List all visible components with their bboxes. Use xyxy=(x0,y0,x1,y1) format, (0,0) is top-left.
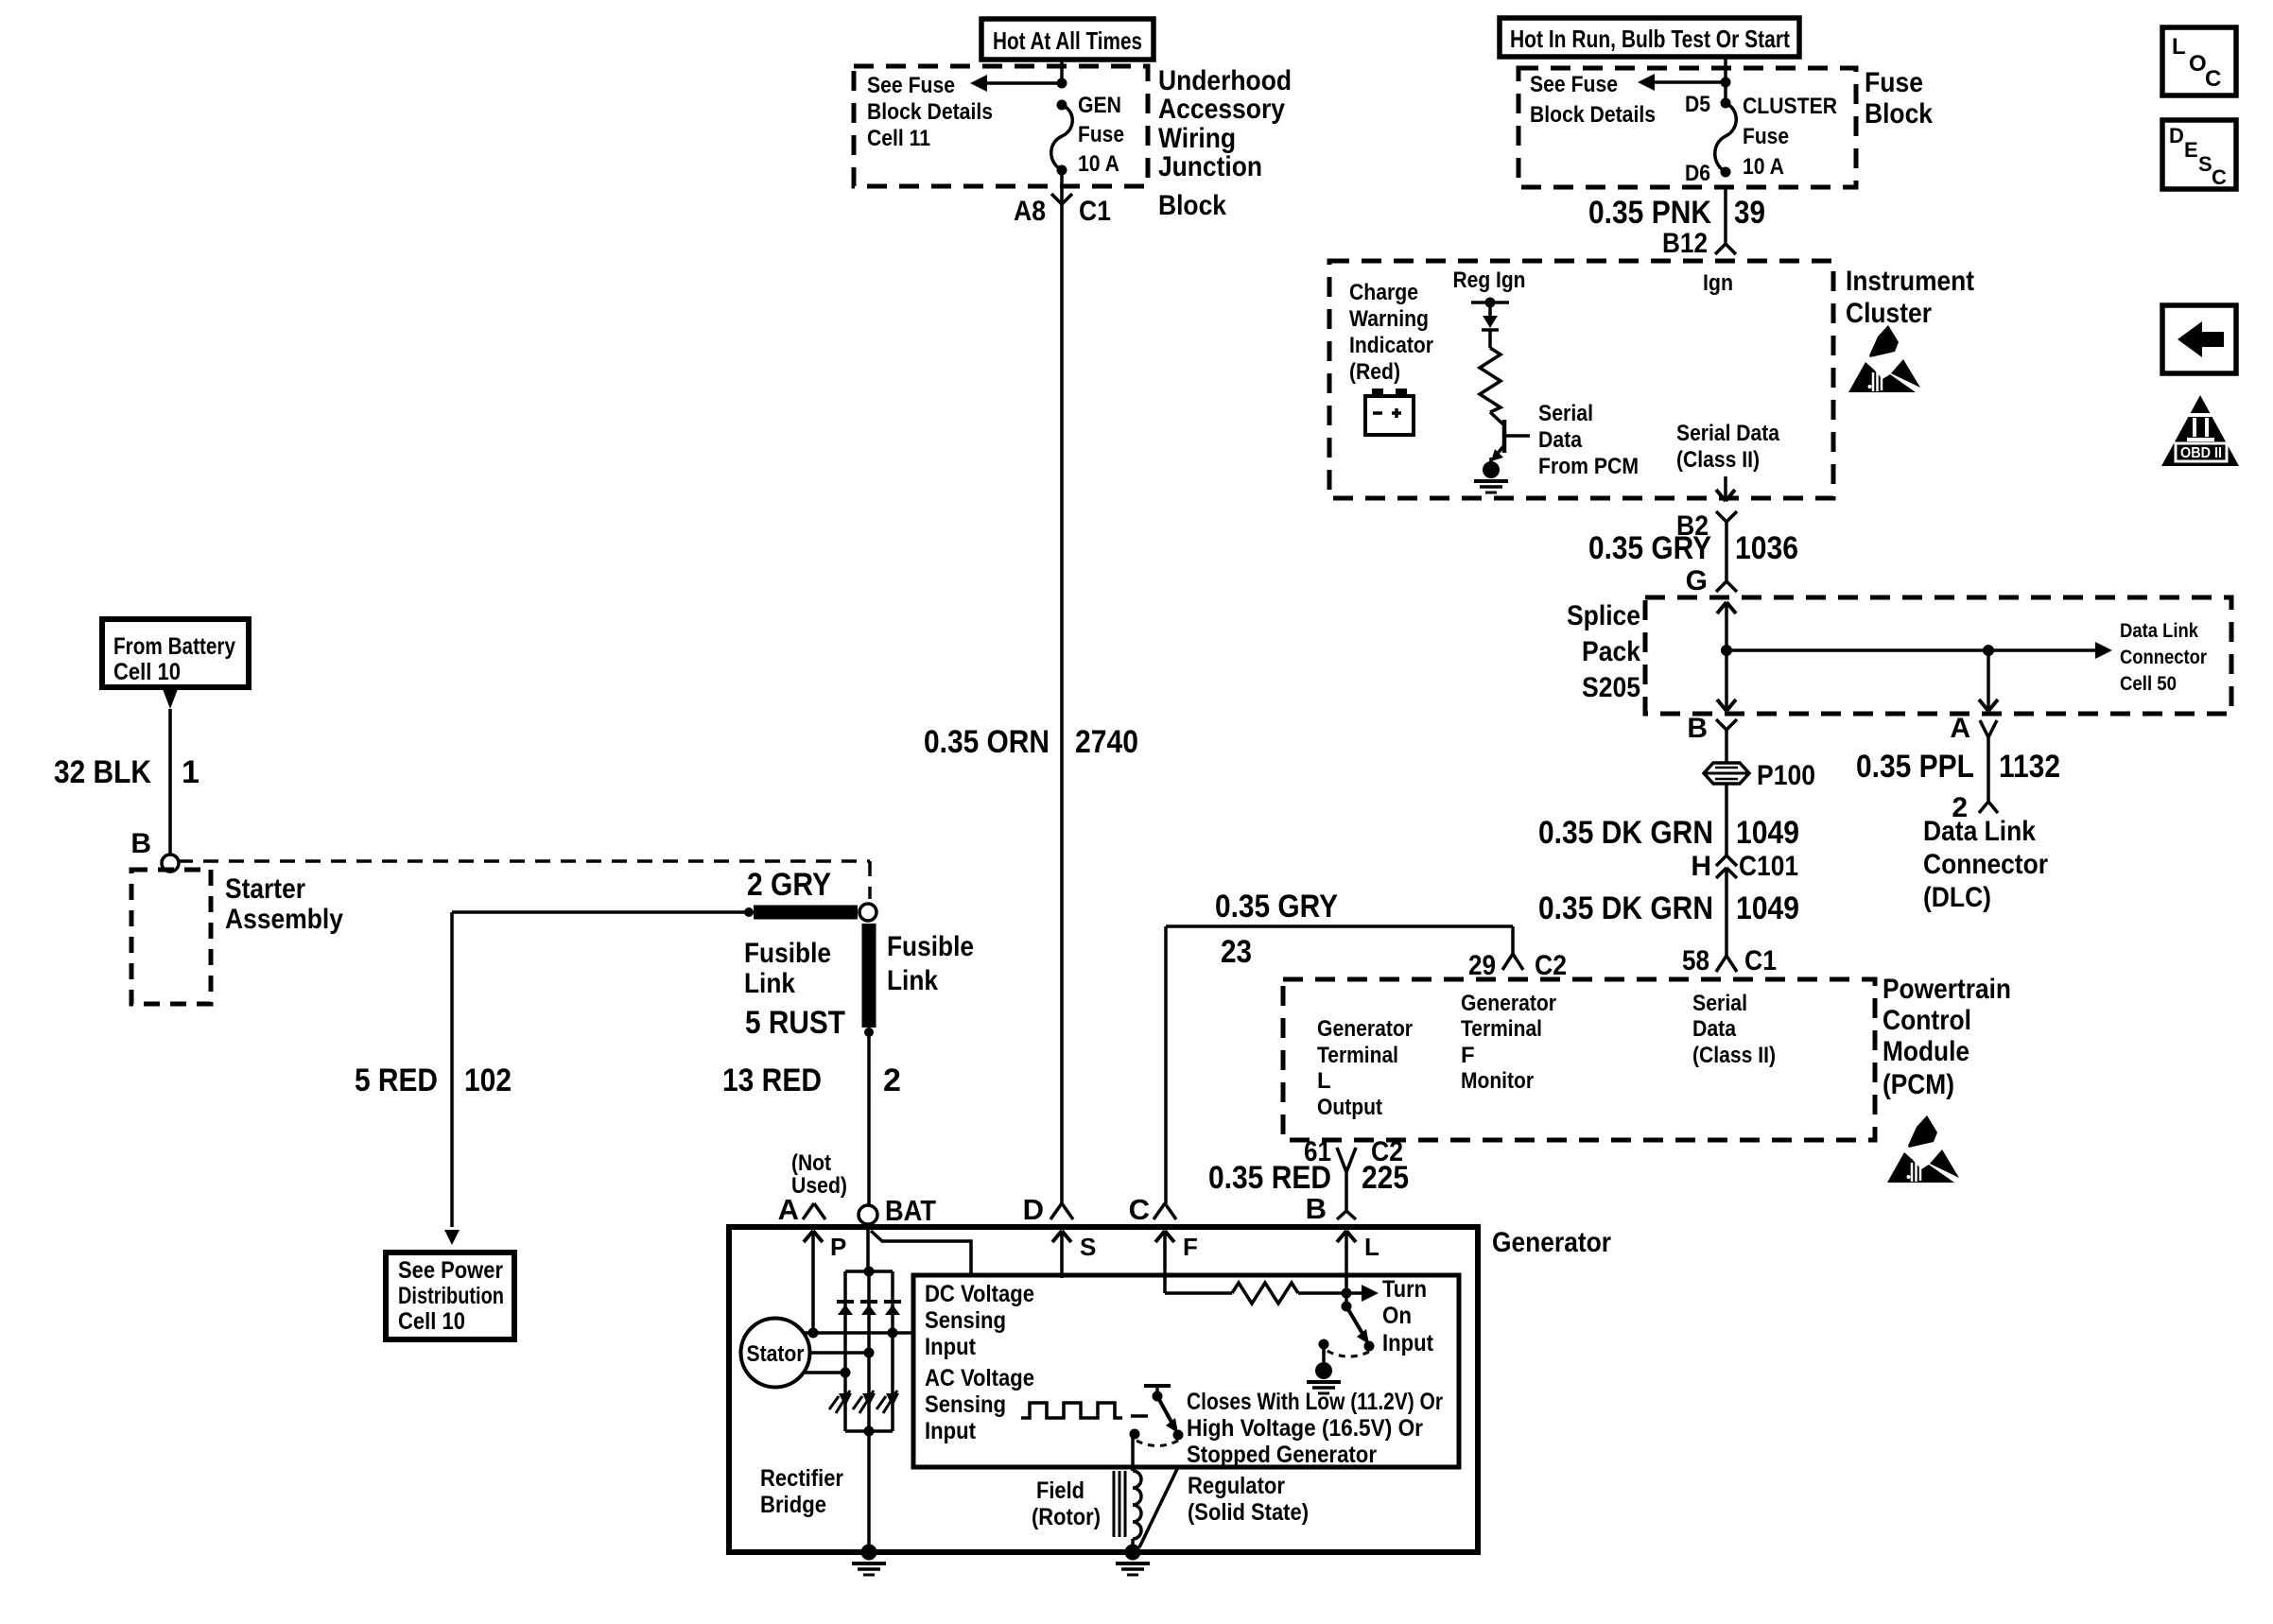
regulator connection diagonal xyxy=(1139,1467,1178,1547)
svg-text:DC Voltage: DC Voltage xyxy=(925,1281,1034,1307)
svg-text:AC Voltage: AC Voltage xyxy=(925,1365,1034,1391)
svg-text:Input: Input xyxy=(1382,1330,1434,1356)
svg-text:D: D xyxy=(2169,124,2184,147)
Reg Ign feed bar xyxy=(1471,301,1509,304)
svg-text:1036: 1036 xyxy=(1735,530,1798,566)
svg-text:S205: S205 xyxy=(1582,672,1640,703)
svg-text:O: O xyxy=(2189,51,2207,77)
connector A fork (not used) xyxy=(803,1203,814,1219)
svg-text:1049: 1049 xyxy=(1736,890,1799,926)
svg-text:Data: Data xyxy=(1692,1016,1737,1042)
ground (field coil) xyxy=(1125,1545,1141,1561)
arrow up into splice pack xyxy=(1725,602,1728,650)
svg-text:2 GRY: 2 GRY xyxy=(747,867,831,903)
wire from Hot At All Times box down xyxy=(1060,60,1064,83)
svg-text:See Power: See Power xyxy=(398,1257,503,1284)
diode D2 (rectifier top) xyxy=(860,1300,877,1304)
svg-text:L: L xyxy=(1317,1068,1331,1094)
inductor field coil xyxy=(1133,1471,1141,1539)
svg-text:Hot In Run, Bulb Test Or Start: Hot In Run, Bulb Test Or Start xyxy=(1510,25,1790,53)
svg-text:C1: C1 xyxy=(1079,196,1111,227)
voltage switch SW1 xyxy=(1153,1391,1163,1402)
svg-text:13 RED: 13 RED xyxy=(722,1063,822,1098)
resistor R1 (indicator driver) xyxy=(1480,348,1501,412)
field coil (rotor) core xyxy=(1113,1471,1116,1537)
connector A fork (DLC) xyxy=(1980,720,1988,737)
svg-text:0.35 DK GRN: 0.35 DK GRN xyxy=(1538,890,1713,926)
svg-text:Fuse: Fuse xyxy=(1743,124,1789,149)
terminal arrow P xyxy=(811,1231,815,1333)
svg-text:29: 29 xyxy=(1468,950,1496,981)
fuse GEN 10A element xyxy=(1057,100,1067,111)
wire to power distribution xyxy=(452,910,749,914)
svg-text:Block Details: Block Details xyxy=(1530,102,1656,128)
svg-text:Powertrain: Powertrain xyxy=(1883,974,2011,1005)
dashed wire starter to fusible links xyxy=(178,859,870,863)
svg-text:Hot At All Times: Hot At All Times xyxy=(993,26,1142,55)
wire Reg Ign to diode xyxy=(1488,302,1492,316)
terminal arrow L xyxy=(1345,1231,1348,1293)
ground (transistor emitter) xyxy=(1483,461,1500,478)
svg-text:0.35 PNK: 0.35 PNK xyxy=(1588,195,1711,231)
svg-text:Splice: Splice xyxy=(1567,600,1640,631)
page ref box From Battery Cell 10 xyxy=(102,619,249,687)
svg-text:0.35 ORN: 0.35 ORN xyxy=(924,724,1050,760)
svg-text:Serial Data: Serial Data xyxy=(1676,421,1780,446)
svg-text:Generator: Generator xyxy=(1461,991,1556,1016)
square wave symbol xyxy=(1021,1403,1122,1418)
svg-text:Accessory: Accessory xyxy=(1158,94,1285,125)
wire fuse to connector A8 xyxy=(1060,170,1064,204)
svg-text:1049: 1049 xyxy=(1736,815,1799,851)
svg-text:Input: Input xyxy=(925,1418,977,1444)
svg-text:Fuse: Fuse xyxy=(1865,67,1923,98)
svg-text:GEN: GEN xyxy=(1078,93,1121,118)
node circle B (starter assembly) xyxy=(162,855,179,872)
wire 0.35 PPL 1132 xyxy=(1987,737,1990,802)
arrow from battery box xyxy=(163,689,178,709)
svg-text:High Voltage (16.5V) Or: High Voltage (16.5V) Or xyxy=(1187,1415,1423,1442)
svg-text:Fusible: Fusible xyxy=(744,938,831,969)
svg-text:On: On xyxy=(1382,1303,1412,1329)
svg-text:E: E xyxy=(2184,138,2198,162)
svg-text:0.35 PPL: 0.35 PPL xyxy=(1856,749,1974,785)
connector B fork (splice to P100) xyxy=(1716,719,1726,730)
connector pin 2 fork (DLC) xyxy=(1979,802,1988,813)
svg-text:5 RED: 5 RED xyxy=(355,1063,438,1098)
ground (rectifier bridge) xyxy=(861,1545,877,1561)
svg-text:P100: P100 xyxy=(1757,760,1815,791)
svg-text:C: C xyxy=(1129,1193,1150,1226)
svg-text:Turn: Turn xyxy=(1382,1276,1427,1303)
svg-text:Starter: Starter xyxy=(225,873,305,905)
wire P100 to C101 (0.35 DK GRN 1049) xyxy=(1725,784,1728,855)
svg-text:OBD II: OBD II xyxy=(2180,445,2222,461)
node circle fusible link junction xyxy=(859,904,876,921)
svg-text:Ign: Ign xyxy=(1703,270,1733,296)
svg-text:C101: C101 xyxy=(1739,851,1798,882)
svg-text:(Not: (Not xyxy=(791,1150,831,1176)
svg-text:Block Details: Block Details xyxy=(867,99,993,125)
wire 13 RED 2 to BAT xyxy=(867,1032,871,1205)
fusible link (horizontal, 2 GRY) xyxy=(754,906,858,920)
svg-text:Fuse: Fuse xyxy=(1078,122,1124,147)
diode CR1 (charge indicator) xyxy=(1483,316,1498,328)
fuse block dashed box xyxy=(1518,68,1856,187)
svg-text:From PCM: From PCM xyxy=(1538,454,1639,479)
rectifier bridge top rail xyxy=(845,1270,893,1273)
svg-text:Block: Block xyxy=(1158,190,1226,221)
svg-text:F: F xyxy=(1461,1043,1475,1068)
connector B2 fork xyxy=(1716,511,1726,522)
svg-text:A: A xyxy=(778,1193,799,1226)
fusible link (vertical, 5 RUST) xyxy=(862,924,876,1028)
svg-text:CLUSTER: CLUSTER xyxy=(1743,94,1837,119)
svg-text:Serial: Serial xyxy=(1692,991,1747,1016)
arrow down DLC branch xyxy=(1987,650,1990,711)
diode D3 (rectifier top) xyxy=(884,1300,901,1304)
svg-text:Pack: Pack xyxy=(1582,636,1640,667)
svg-text:G: G xyxy=(1686,565,1708,596)
svg-text:32 BLK: 32 BLK xyxy=(54,754,151,790)
svg-text:(DLC): (DLC) xyxy=(1923,882,1991,913)
rectifier bridge right rail xyxy=(891,1271,894,1431)
svg-text:Instrument: Instrument xyxy=(1846,266,1974,297)
svg-text:0.35 RED: 0.35 RED xyxy=(1208,1160,1331,1196)
instrument cluster dashed box xyxy=(1329,261,1833,498)
svg-text:B: B xyxy=(130,828,151,859)
terminal arrow S xyxy=(1060,1231,1064,1278)
underhood junction block dashed box xyxy=(854,66,1148,186)
svg-text:(Class II): (Class II) xyxy=(1692,1043,1776,1068)
zener diode Z1 (rectifier bottom) xyxy=(829,1396,839,1409)
svg-text:Generator: Generator xyxy=(1317,1016,1413,1042)
svg-text:Field: Field xyxy=(1036,1477,1084,1504)
starter assembly dashed box xyxy=(131,870,211,1004)
svg-text:Data: Data xyxy=(1538,427,1583,453)
connector G fork xyxy=(1716,581,1726,592)
svg-text:1: 1 xyxy=(182,754,200,790)
svg-text:B: B xyxy=(1687,713,1708,744)
svg-text:Monitor: Monitor xyxy=(1461,1068,1534,1094)
svg-text:Connector: Connector xyxy=(1923,849,2048,880)
svg-text:L: L xyxy=(1364,1233,1379,1261)
svg-text:Sensing: Sensing xyxy=(925,1307,1006,1334)
svg-text:(Solid State): (Solid State) xyxy=(1188,1499,1309,1526)
svg-text:A8: A8 xyxy=(1014,196,1046,227)
stator circle xyxy=(741,1319,810,1388)
powertrain control module dashed box xyxy=(1283,979,1875,1140)
svg-text:10 A: 10 A xyxy=(1743,154,1784,180)
svg-text:Fusible: Fusible xyxy=(887,931,974,962)
wire arrow to See Fuse Block Details (fuse block) xyxy=(1655,80,1726,84)
svg-text:D6: D6 xyxy=(1685,161,1710,186)
pass-through connector P100 xyxy=(1704,763,1749,784)
ESD warning symbol (instrument cluster) xyxy=(1848,325,1920,392)
svg-text:Data Link: Data Link xyxy=(2120,620,2198,642)
stator phase wire 3 xyxy=(803,1371,845,1374)
svg-text:Indicator: Indicator xyxy=(1349,333,1433,358)
zener diode Z2 (rectifier bottom) xyxy=(853,1396,862,1409)
svg-text:Junction: Junction xyxy=(1158,151,1262,182)
junction dot on DLC branch xyxy=(1983,645,1994,656)
stator phase wire 2 xyxy=(809,1351,869,1355)
svg-text:1132: 1132 xyxy=(1999,749,2060,785)
power feed box "Hot At All Times" xyxy=(981,19,1154,60)
svg-text:From Battery: From Battery xyxy=(113,633,235,660)
svg-text:Cluster: Cluster xyxy=(1846,298,1932,329)
stator phase wire 1 xyxy=(804,1331,913,1335)
DESC reference box xyxy=(2162,120,2236,189)
connector 58/C1 fork xyxy=(1716,956,1726,972)
svg-text:See Fuse: See Fuse xyxy=(867,73,955,98)
svg-text:Underhood: Underhood xyxy=(1158,65,1292,96)
ground (turn-on switch) xyxy=(1322,1344,1326,1362)
page ref box See Power Distribution Cell 10 xyxy=(386,1253,514,1339)
svg-text:Closes With Low (11.2V) Or: Closes With Low (11.2V) Or xyxy=(1187,1389,1443,1415)
svg-text:Link: Link xyxy=(744,968,795,999)
svg-text:C1: C1 xyxy=(1744,945,1777,976)
svg-text:(Class II): (Class II) xyxy=(1676,447,1760,473)
svg-text:Stator: Stator xyxy=(747,1341,805,1367)
svg-text:225: 225 xyxy=(1362,1160,1409,1196)
svg-text:Cell 11: Cell 11 xyxy=(867,126,930,151)
connector 29/C2 fork xyxy=(1502,954,1513,970)
svg-text:Output: Output xyxy=(1317,1095,1382,1120)
splice junction dot S205 xyxy=(1721,645,1732,656)
svg-text:C2: C2 xyxy=(1535,950,1567,981)
wire 0.35 GRY 1036 xyxy=(1725,522,1728,581)
svg-text:Rectifier: Rectifier xyxy=(760,1465,843,1492)
svg-text:Cell 50: Cell 50 xyxy=(2120,673,2177,695)
svg-text:P: P xyxy=(830,1233,846,1261)
svg-text:Distribution: Distribution xyxy=(398,1283,504,1309)
svg-text:H: H xyxy=(1691,851,1711,882)
svg-text:Used): Used) xyxy=(791,1173,847,1199)
svg-text:Data Link: Data Link xyxy=(1923,816,2036,847)
svg-text:Terminal: Terminal xyxy=(1317,1043,1398,1068)
connector C fork (generator) xyxy=(1154,1203,1165,1219)
connector C101 double fork xyxy=(1716,855,1726,866)
svg-text:Cell 10: Cell 10 xyxy=(398,1308,465,1335)
LOC reference box xyxy=(2162,27,2236,95)
svg-text:L: L xyxy=(2172,34,2186,60)
svg-text:Regulator: Regulator xyxy=(1188,1473,1285,1499)
svg-text:Wiring: Wiring xyxy=(1158,123,1236,154)
svg-text:0.35 GRY: 0.35 GRY xyxy=(1588,530,1711,566)
wire switch to field coil xyxy=(1131,1434,1135,1471)
resistor R2 (turn on input) xyxy=(1165,1291,1232,1295)
svg-text:S: S xyxy=(1080,1233,1096,1261)
battery telltale symbol xyxy=(1372,389,1383,396)
wire fuse block to B12 xyxy=(1724,187,1727,244)
svg-text:58: 58 xyxy=(1682,945,1709,976)
connector 61/C2 fork xyxy=(1337,1148,1346,1172)
svg-text:(Red): (Red) xyxy=(1349,359,1400,385)
wire from Hot In Run box down xyxy=(1724,57,1727,103)
wire resistor to turn-on arrow xyxy=(1298,1291,1362,1295)
svg-text:2740: 2740 xyxy=(1075,724,1138,760)
svg-text:Warning: Warning xyxy=(1349,306,1429,332)
terminal BAT circle xyxy=(859,1205,877,1224)
voltage switch SW1 contact bar xyxy=(1144,1384,1171,1388)
svg-text:Bridge: Bridge xyxy=(760,1492,826,1518)
svg-text:BAT: BAT xyxy=(885,1194,936,1227)
splice pack S205 dashed box xyxy=(1645,597,2231,714)
wire 0.35 ORN 2740 (A8 C1 to generator D) xyxy=(1060,204,1064,1203)
wire C101 to PCM (0.35 DK GRN 1049) xyxy=(1725,868,1728,956)
svg-text:Input: Input xyxy=(925,1334,977,1360)
rectifier bridge left rail xyxy=(843,1271,847,1431)
wire BAT sense tap xyxy=(871,1231,971,1275)
junction dot fuse block feed xyxy=(1721,78,1731,88)
svg-text:F: F xyxy=(1183,1233,1198,1261)
wire arrow to See Fuse Block Details xyxy=(987,81,1062,85)
svg-text:0.35 DK GRN: 0.35 DK GRN xyxy=(1538,815,1713,851)
arrow down serial data branch xyxy=(1725,650,1728,711)
svg-text:B: B xyxy=(1306,1192,1327,1225)
wire B to P100 xyxy=(1725,730,1728,763)
wire BAT through bridge to ground xyxy=(867,1271,871,1552)
svg-text:C: C xyxy=(2205,66,2221,92)
wire BAT into generator xyxy=(866,1224,870,1271)
svg-text:D: D xyxy=(1023,1193,1044,1226)
svg-text:Generator: Generator xyxy=(1492,1227,1611,1258)
svg-text:0.35 GRY: 0.35 GRY xyxy=(1215,889,1338,924)
svg-text:Control: Control xyxy=(1883,1005,1971,1036)
svg-text:Reg Ign: Reg Ign xyxy=(1453,268,1526,293)
wire splice to data link connector xyxy=(1726,648,2101,652)
zener diode Z3 (rectifier bottom) xyxy=(876,1396,886,1409)
connector D fork (generator) xyxy=(1050,1203,1062,1219)
svg-text:39: 39 xyxy=(1734,195,1765,231)
OBD II symbol xyxy=(2161,395,2239,466)
terminal arrow F xyxy=(1163,1231,1167,1293)
svg-text:B12: B12 xyxy=(1662,228,1708,259)
svg-text:D5: D5 xyxy=(1685,92,1710,117)
regulator box (solid state) xyxy=(913,1275,1459,1467)
arrow serial data to cluster edge xyxy=(1724,476,1727,501)
transistor Q1 (lamp driver) xyxy=(1490,412,1504,425)
svg-text:Cell 10: Cell 10 xyxy=(113,659,181,685)
svg-text:2: 2 xyxy=(883,1063,901,1098)
svg-text:Block: Block xyxy=(1865,98,1933,130)
svg-text:Terminal: Terminal xyxy=(1461,1016,1542,1042)
svg-text:C: C xyxy=(2212,165,2227,189)
svg-text:10 A: 10 A xyxy=(1078,151,1119,177)
svg-text:(Rotor): (Rotor) xyxy=(1032,1504,1101,1530)
generator outline box xyxy=(729,1227,1478,1552)
svg-text:Sensing: Sensing xyxy=(925,1391,1006,1418)
turn-on switch SW2 xyxy=(1345,1293,1348,1304)
svg-text:See Fuse: See Fuse xyxy=(1530,72,1618,97)
svg-text:102: 102 xyxy=(464,1063,512,1098)
connector B fork (generator L) xyxy=(1337,1211,1346,1219)
junction dot at fuse feed xyxy=(1057,78,1067,89)
svg-text:(PCM): (PCM) xyxy=(1883,1069,1954,1100)
svg-text:Stopped Generator: Stopped Generator xyxy=(1187,1442,1377,1468)
svg-text:Module: Module xyxy=(1883,1036,1969,1067)
wire diode to resistor xyxy=(1488,330,1492,348)
back arrow box xyxy=(2162,305,2236,373)
fuse CLUSTER 10A element xyxy=(1721,98,1731,109)
svg-text:23: 23 xyxy=(1221,934,1252,970)
wire 61 C2 to generator L (0.35 RED 225) xyxy=(1345,1172,1348,1211)
svg-text:Assembly: Assembly xyxy=(225,904,343,935)
svg-text:S: S xyxy=(2198,152,2212,176)
diode D1 (rectifier top) xyxy=(837,1300,854,1304)
connector B12 fork xyxy=(1715,244,1726,254)
svg-text:Charge: Charge xyxy=(1349,280,1418,305)
wire 0.35 GRY 23 (F monitor) xyxy=(1166,924,1513,928)
svg-text:Connector: Connector xyxy=(2120,647,2207,668)
dash link to voltage switch xyxy=(1131,1414,1148,1418)
svg-text:A: A xyxy=(1950,713,1970,744)
wire field coil to ground xyxy=(1131,1539,1135,1552)
rectifier bridge bottom rail xyxy=(845,1429,893,1433)
svg-text:Link: Link xyxy=(887,965,938,996)
svg-text:Serial: Serial xyxy=(1538,401,1593,426)
svg-text:5 RUST: 5 RUST xyxy=(745,1005,845,1041)
power feed box "Hot In Run, Bulb Test Or Start" xyxy=(1500,18,1799,57)
connector A8/C1 fork xyxy=(1051,194,1062,204)
ESD warning symbol (PCM) xyxy=(1887,1115,1959,1183)
